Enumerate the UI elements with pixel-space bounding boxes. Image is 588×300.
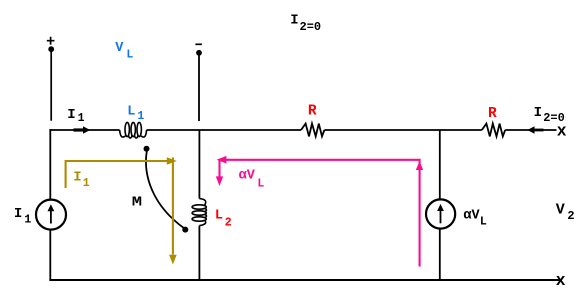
wire top right segment (505, 129, 556, 131)
wire magenta short drop (218, 160, 220, 177)
svg-text:V: V (556, 202, 565, 219)
wire magenta horizontal (224, 160, 420, 267)
svg-text:M: M (132, 195, 142, 211)
wire top segment between resistors (324, 129, 481, 131)
svg-text:L: L (480, 215, 487, 228)
wire right branch lower (439, 229, 441, 280)
arrow olive right (167, 157, 177, 165)
svg-text:R: R (308, 104, 317, 120)
svg-text:V: V (115, 41, 124, 56)
wire left vertical upper (49, 129, 51, 199)
svg-text:αV: αV (239, 169, 256, 184)
svg-text:2: 2 (225, 216, 232, 229)
svg-text:2=0: 2=0 (300, 20, 322, 34)
arrow magenta left (217, 156, 227, 164)
arrow I2 pointing left (527, 126, 534, 133)
svg-text:L: L (215, 209, 223, 224)
svg-text:x: x (557, 123, 567, 142)
svg-text:1: 1 (78, 112, 85, 125)
svg-text:L: L (127, 104, 135, 119)
inductor L1 (120, 122, 147, 138)
node plus terminal label (47, 37, 55, 45)
svg-text:I: I (67, 107, 75, 123)
current source alphaVL (426, 199, 455, 228)
wire right branch upper (439, 130, 441, 200)
svg-text:I: I (73, 169, 81, 185)
node minus terminal label (195, 43, 202, 45)
wire olive current path (66, 161, 168, 188)
mutual inductance curve M (146, 151, 185, 229)
resistor R right (482, 124, 505, 137)
arrow magenta up (416, 161, 423, 170)
wire middle vertical lower (198, 226, 200, 280)
arrow I1 on top wire (83, 126, 90, 133)
dot L1 winding terminal (144, 146, 150, 152)
wire top left segment (49, 129, 119, 131)
wire left vertical lower (49, 230, 51, 281)
arrow olive down (169, 255, 177, 265)
svg-text:I: I (534, 105, 542, 121)
svg-text:I: I (290, 12, 298, 28)
svg-text:L: L (126, 48, 133, 61)
wire plus stub (50, 49, 52, 121)
terminal dot plus (48, 46, 54, 52)
svg-text:1: 1 (137, 110, 144, 123)
wire olive vertical drop (172, 158, 174, 255)
dot L2 winding terminal (182, 227, 188, 233)
wire bottom (49, 279, 559, 281)
current source I1 (36, 200, 66, 230)
wire minus stub (198, 53, 200, 121)
svg-text:2: 2 (567, 209, 574, 223)
svg-text:αV: αV (463, 209, 480, 224)
inductor L2 (192, 199, 206, 226)
wire top middle segment (147, 129, 301, 131)
arrow magenta down (216, 176, 223, 186)
svg-text:R: R (488, 106, 497, 122)
svg-text:L: L (257, 178, 264, 191)
svg-text:1: 1 (24, 213, 31, 226)
svg-text:I: I (14, 206, 22, 222)
terminal dot minus (196, 50, 202, 56)
resistor R left (301, 124, 324, 137)
wire middle vertical upper (198, 130, 200, 199)
svg-text:x: x (556, 272, 566, 291)
svg-text:1: 1 (83, 177, 90, 190)
